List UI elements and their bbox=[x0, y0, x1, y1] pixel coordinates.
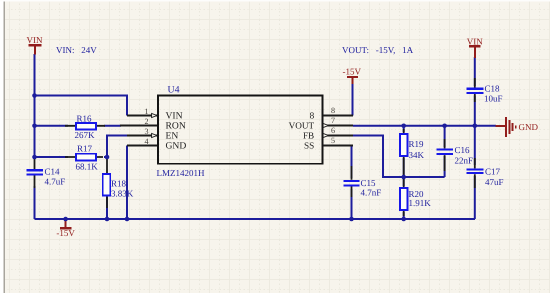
ground GND power port (right) bbox=[496, 117, 539, 137]
svg-text:U4: U4 bbox=[168, 85, 180, 96]
resistor R19 lead stubs bbox=[403, 129, 405, 176]
junction rail / R20 bbox=[401, 217, 406, 222]
svg-text:1: 1 bbox=[144, 107, 148, 116]
svg-text:VOUT: VOUT bbox=[289, 121, 315, 131]
resistor R20 bbox=[400, 188, 431, 210]
svg-text:8: 8 bbox=[331, 106, 335, 115]
svg-text:-15V: -15V bbox=[56, 228, 75, 238]
wire C18 to VOUT row bbox=[474, 96, 476, 126]
junction VIN rail / R17 / C14 bbox=[32, 155, 37, 160]
svg-text:C17: C17 bbox=[485, 166, 501, 176]
power port -15V (top, pin 8 net) bbox=[343, 67, 362, 85]
junction VIN rail / R16 bbox=[32, 124, 37, 129]
svg-text:VIN: VIN bbox=[467, 37, 483, 47]
svg-text:3.83K: 3.83K bbox=[111, 188, 134, 198]
junction rail / R18 bbox=[105, 217, 110, 222]
svg-text:R18: R18 bbox=[111, 178, 127, 188]
pin 4 GND bbox=[127, 145, 157, 147]
svg-text:C16: C16 bbox=[455, 145, 471, 155]
junction VOUT row / C17-C18 column bbox=[473, 124, 478, 129]
wire R19 top stub bbox=[403, 126, 405, 132]
svg-text:VIN: VIN bbox=[27, 35, 43, 45]
wire R19-R20 junction segment bbox=[403, 158, 405, 186]
svg-text:267K: 267K bbox=[75, 130, 96, 140]
svg-text:GND: GND bbox=[519, 122, 539, 132]
junction rail / pin 4 drop bbox=[125, 217, 130, 222]
pin 6 FB bbox=[323, 135, 353, 137]
svg-text:6: 6 bbox=[331, 126, 335, 135]
svg-text:4.7nF: 4.7nF bbox=[361, 187, 382, 197]
capacitor C17 bbox=[466, 166, 503, 187]
svg-text:4: 4 bbox=[144, 137, 148, 146]
wire bottom -15V rail bbox=[35, 218, 476, 220]
svg-text:22nF: 22nF bbox=[455, 155, 474, 165]
svg-text:1.91K: 1.91K bbox=[409, 198, 432, 208]
capacitor C15 bbox=[344, 178, 382, 197]
resistor R20 lead stubs bbox=[403, 178, 405, 216]
svg-text:R17: R17 bbox=[77, 143, 93, 153]
wire EN drop, pin 3 to node A bbox=[107, 136, 128, 159]
capacitor C14 bbox=[27, 166, 66, 186]
pin 5 SS bbox=[323, 145, 353, 147]
junction VIN rail / top run bbox=[32, 93, 37, 98]
wire VIN rail lower segment (C14 to bottom rail) bbox=[34, 186, 36, 219]
svg-text:-15V: -15V bbox=[343, 67, 362, 77]
output arrow pin 7 bbox=[323, 123, 328, 127]
IC U1 regulator U4 LMZ14201H bbox=[120, 85, 353, 179]
wire R17 to node A bbox=[104, 156, 107, 158]
svg-text:GND: GND bbox=[166, 141, 187, 152]
junction rail / -15V port bbox=[63, 217, 68, 222]
capacitor C16 bbox=[437, 145, 474, 165]
wire C17 bottom to rail end bbox=[474, 176, 476, 219]
wire R16 to pin 2 bbox=[104, 125, 121, 127]
wire C16 riser lower bbox=[444, 156, 446, 177]
junction rail / C15 bbox=[349, 217, 354, 222]
input arrow pin 3 bbox=[152, 133, 157, 137]
wire R18 bottom to rail bbox=[106, 197, 108, 219]
wire R17 row, rail to R17 bbox=[35, 156, 69, 158]
power port VIN (top-right) bbox=[467, 37, 483, 59]
pin 7 VOUT bbox=[323, 125, 353, 127]
wire top run to pin 1 bbox=[35, 96, 128, 116]
svg-text:C18: C18 bbox=[485, 84, 501, 94]
wire FB path, pin 6 to feedback node bbox=[353, 136, 445, 178]
wire C16 riser upper bbox=[444, 126, 446, 147]
capacitor C18 lead stubs bbox=[474, 78, 476, 102]
svg-text:FB: FB bbox=[303, 131, 314, 141]
junction feedback node: FB / R19 / R20 bbox=[401, 175, 406, 180]
junction node A: R17 / R18 / EN bbox=[105, 155, 110, 160]
input arrow pin 1 bbox=[152, 113, 157, 117]
svg-text:10uF: 10uF bbox=[484, 93, 503, 103]
wire pin 8 riser to -15V port bbox=[352, 83, 354, 116]
pin 8 bbox=[323, 115, 353, 117]
wire VIN port to C18 bbox=[474, 57, 476, 86]
capacitor C16 lead stubs bbox=[444, 139, 446, 171]
capacitor C15 lead stubs bbox=[351, 166, 353, 197]
resistor R16 bbox=[75, 113, 97, 140]
power port VIN (top-left) bbox=[27, 35, 43, 55]
wire SS pin 5 drop to C15 bbox=[352, 146, 354, 179]
output arrow pin 6 bbox=[323, 133, 328, 137]
pin 2 RON bbox=[120, 125, 157, 127]
svg-text:5: 5 bbox=[331, 136, 335, 145]
wire GND pin 4 drop to rail bbox=[126, 146, 128, 220]
svg-text:R19: R19 bbox=[409, 139, 425, 149]
wire C15 bottom to rail bbox=[351, 189, 353, 219]
capacitor C17 lead stubs bbox=[474, 158, 476, 188]
pin 3 EN bbox=[127, 135, 157, 137]
resistor R18 lead stubs bbox=[106, 158, 108, 208]
svg-text:4.7uF: 4.7uF bbox=[45, 176, 66, 186]
svg-text:SS: SS bbox=[304, 141, 314, 151]
resistor R17 lead stubs bbox=[65, 156, 103, 158]
resistor R18 bbox=[103, 174, 134, 198]
svg-text:34K: 34K bbox=[409, 150, 425, 160]
wire R20 bottom stub bbox=[403, 212, 405, 219]
svg-text:VIN: 24V: VIN: 24V bbox=[56, 45, 97, 55]
power port -15V (bottom rail) bbox=[56, 219, 75, 238]
svg-text:8: 8 bbox=[310, 111, 315, 121]
svg-text:R16: R16 bbox=[77, 113, 93, 123]
wire VIN rail upper segment (port to C14 node) bbox=[34, 54, 36, 159]
junction VOUT row / R19 bbox=[401, 124, 406, 129]
resistor R16 lead stubs bbox=[65, 125, 105, 127]
junction VOUT row / C16 bbox=[442, 124, 447, 129]
svg-text:3: 3 bbox=[144, 127, 148, 136]
wire VOUT row to C17 bbox=[474, 126, 476, 165]
svg-text:7: 7 bbox=[331, 116, 335, 125]
svg-text:C14: C14 bbox=[45, 166, 61, 176]
wire VOUT row, pin 7 to GND bbox=[353, 125, 496, 127]
capacitor C14 lead stubs bbox=[34, 158, 36, 188]
pin 1 VIN bbox=[127, 115, 157, 117]
svg-text:68.1K: 68.1K bbox=[76, 161, 99, 171]
svg-text:LMZ14201H: LMZ14201H bbox=[157, 168, 205, 178]
resistor R17 bbox=[76, 143, 99, 171]
capacitor C18 bbox=[466, 84, 502, 104]
svg-text:47uF: 47uF bbox=[485, 177, 504, 187]
svg-text:VOUT: -15V, 1A: VOUT: -15V, 1A bbox=[342, 45, 414, 55]
resistor R19 bbox=[400, 134, 425, 160]
U4 body outline bbox=[158, 95, 322, 163]
wire RON row, rail to R16 bbox=[35, 125, 69, 127]
svg-text:2: 2 bbox=[144, 117, 148, 126]
